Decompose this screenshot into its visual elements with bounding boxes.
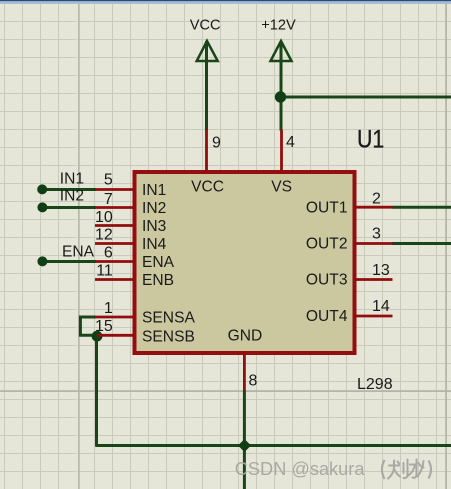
svg-text:IN2: IN2 xyxy=(60,188,84,205)
svg-text:7: 7 xyxy=(104,191,113,208)
svg-text:8: 8 xyxy=(249,373,258,390)
svg-text:14: 14 xyxy=(372,298,390,315)
svg-text:9: 9 xyxy=(212,135,221,152)
svg-text:OUT1: OUT1 xyxy=(306,200,348,217)
svg-text:10: 10 xyxy=(95,209,113,226)
svg-text:1: 1 xyxy=(104,300,113,317)
svg-text:ENA: ENA xyxy=(142,254,175,271)
svg-text:12: 12 xyxy=(95,227,113,244)
svg-text:3: 3 xyxy=(372,225,381,242)
svg-text:SENSB: SENSB xyxy=(142,328,195,345)
svg-text:IN3: IN3 xyxy=(142,218,166,235)
svg-text:5: 5 xyxy=(104,172,113,189)
svg-text:U1: U1 xyxy=(357,125,384,153)
svg-text:GND: GND xyxy=(228,328,263,345)
svg-text:ENB: ENB xyxy=(142,272,174,289)
svg-text:OUT4: OUT4 xyxy=(306,308,348,325)
svg-text:SENSA: SENSA xyxy=(142,310,195,327)
svg-text:IN1: IN1 xyxy=(142,182,166,199)
svg-text:IN2: IN2 xyxy=(142,200,166,217)
svg-text:IN4: IN4 xyxy=(142,236,167,253)
svg-text:L298: L298 xyxy=(357,376,393,393)
svg-text:4: 4 xyxy=(286,134,295,151)
svg-text:6: 6 xyxy=(104,244,113,261)
svg-text:CSDN @sakura: CSDN @sakura xyxy=(235,459,366,479)
svg-text:+12V: +12V xyxy=(261,18,296,34)
svg-text:11: 11 xyxy=(96,262,113,279)
svg-text:OUT2: OUT2 xyxy=(306,236,348,253)
svg-text:OUT3: OUT3 xyxy=(306,272,348,289)
svg-text:VS: VS xyxy=(271,178,292,195)
svg-text:13: 13 xyxy=(372,262,390,279)
svg-text:IN1: IN1 xyxy=(60,171,84,188)
svg-text:2: 2 xyxy=(372,191,381,208)
svg-text:VCC: VCC xyxy=(190,18,221,34)
svg-text:15: 15 xyxy=(95,318,113,335)
svg-text:ENA: ENA xyxy=(62,244,95,261)
svg-text:VCC: VCC xyxy=(191,178,224,195)
